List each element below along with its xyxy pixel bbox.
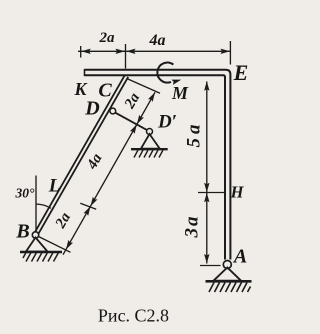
- ground line at B: [20, 251, 62, 253]
- arrow down-left at L tick of 4a: [88, 197, 97, 208]
- svg-text:H: H: [230, 182, 245, 201]
- hinge circle at D on bar: [110, 108, 116, 114]
- arrow up at H tick of 3a: [204, 193, 209, 203]
- ground line at D': [131, 148, 168, 150]
- svg-text:D′: D′: [157, 112, 177, 133]
- arrow right at middle tick of 2a: [116, 49, 126, 54]
- bar left end cap at K: [84, 69, 86, 76]
- svg-text:2a: 2a: [121, 90, 143, 112]
- arrow up at top of 5a: [204, 81, 209, 91]
- svg-text:4a: 4a: [84, 151, 106, 173]
- frame bar K-E horizontal, inner (bottom) edge and E-A vertical inner edge: [85, 75, 226, 259]
- svg-text:D: D: [84, 98, 99, 120]
- top dimension line 2a/4a: [78, 50, 231, 52]
- vertical dimension line 5a/3a: [206, 82, 208, 264]
- support triangle at D': [141, 134, 160, 149]
- svg-text:E: E: [233, 60, 249, 85]
- hatching at B: [23, 253, 59, 262]
- arrow down at H tick of 5a: [204, 183, 209, 193]
- svg-text:5a: 5a: [184, 121, 205, 148]
- pin circle at D': [147, 129, 153, 135]
- moment M arc: [157, 63, 173, 83]
- arrow down-left at B end of bar dim: [64, 240, 73, 251]
- svg-text:C: C: [98, 80, 112, 102]
- arrow up-right at L tick of lower 2a: [83, 205, 92, 216]
- angle arc 30 deg: [36, 204, 51, 208]
- svg-text:2a: 2a: [52, 210, 74, 232]
- frame bar K-E horizontal, outer (top) edge: [85, 70, 231, 260]
- arrow right at right tick of 4a: [221, 49, 231, 54]
- tick at B end of bar dimension: [39, 237, 71, 253]
- inclined bar B-C line 1 (upper-left edge): [34, 75, 125, 234]
- svg-text:B: B: [15, 221, 29, 243]
- arrow down-left at link crossing of upper 2a: [135, 115, 144, 126]
- svg-text:M: M: [171, 83, 189, 103]
- svg-text:K: K: [73, 79, 88, 99]
- svg-text:30°: 30°: [15, 186, 36, 201]
- svg-text:Рис. С2.8: Рис. С2.8: [98, 306, 169, 326]
- extension tick middle (above C): [125, 44, 127, 69]
- svg-text:L: L: [48, 176, 61, 197]
- arrow up-right at C tick of upper 2a: [148, 91, 157, 102]
- pin circle at B: [32, 232, 38, 238]
- extension tick left (above K): [80, 46, 82, 58]
- hatching at A: [209, 283, 251, 293]
- tick at A level: [200, 265, 221, 267]
- extension tick right (above E): [229, 41, 231, 65]
- tick at L on bar dimension: [80, 203, 96, 209]
- arrow left at left tick of 2a: [81, 49, 91, 54]
- moment arrowhead: [171, 77, 182, 85]
- bar dimension line (parallel to inclined bar): [63, 92, 155, 254]
- tick at C end of bar dimension: [127, 79, 160, 94]
- svg-text:4a: 4a: [149, 32, 166, 49]
- support triangle at B: [26, 238, 48, 252]
- svg-text:3a: 3a: [182, 215, 203, 239]
- arrow up-right at link crossing of 4a: [130, 123, 139, 134]
- tick at H: [198, 192, 225, 194]
- inclined bar B-C line 2 (lower-right edge): [37, 77, 128, 236]
- svg-text:2a: 2a: [99, 30, 116, 46]
- hatching at D': [134, 150, 163, 158]
- pin circle at A: [223, 261, 231, 269]
- support triangle at A: [214, 268, 242, 281]
- link rod D to D': [115, 113, 147, 131]
- svg-text:A: A: [232, 246, 247, 268]
- ground line at A: [206, 280, 252, 283]
- arrow left at middle tick of 4a: [126, 49, 136, 54]
- vertical reference line at B for 30 deg angle: [35, 176, 37, 233]
- arrow down at A tick of 3a: [204, 254, 209, 264]
